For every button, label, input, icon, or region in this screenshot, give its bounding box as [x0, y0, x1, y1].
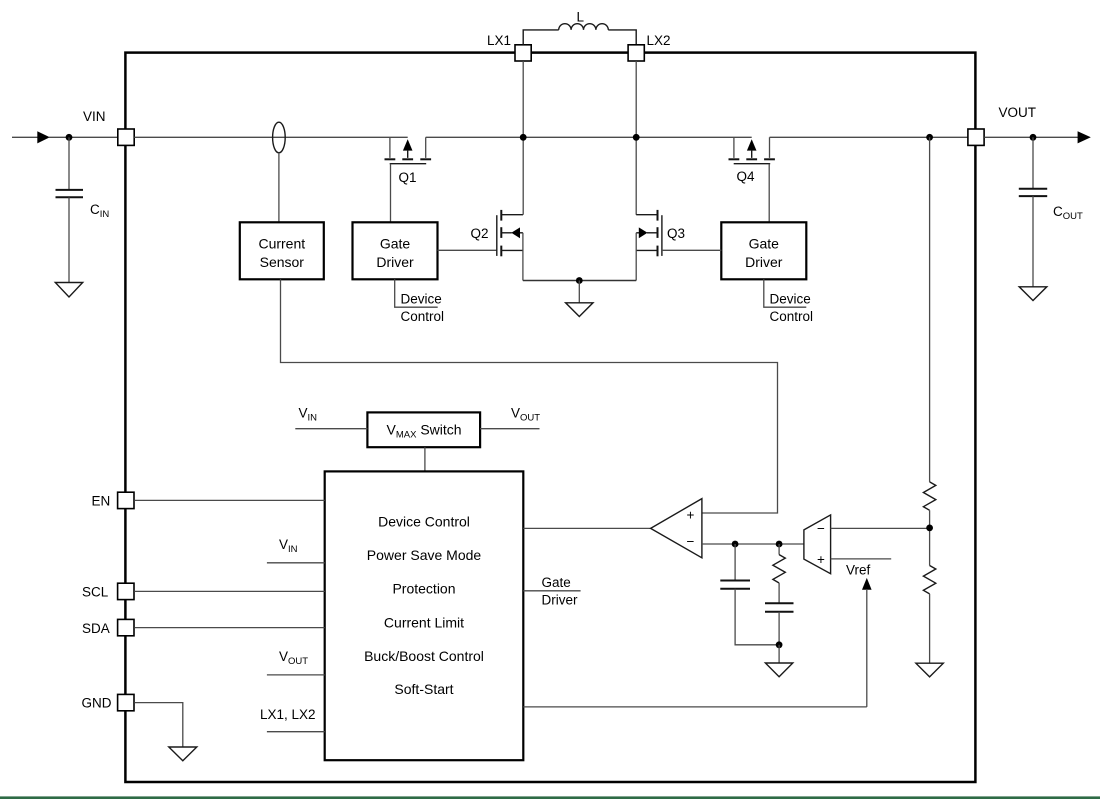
net label VIN at control block — [267, 537, 325, 563]
pin SDA — [82, 619, 134, 635]
svg-text:GND: GND — [82, 696, 112, 711]
ground (compensation) — [765, 645, 792, 677]
current sense element — [273, 122, 286, 153]
error amplifier gm — [804, 515, 831, 574]
node source bus — [576, 277, 583, 284]
wire VIN rail — [134, 136, 752, 138]
wire sensor feed — [278, 153, 280, 223]
wire LX1 net — [522, 61, 524, 215]
svg-text:SDA: SDA — [82, 621, 110, 636]
wire current sensor output to comparator plus input — [281, 279, 778, 513]
IC boundary — [125, 53, 975, 782]
wire Q2 Q3 source bus — [523, 280, 636, 282]
svg-text:Soft-Start: Soft-Start — [394, 681, 453, 697]
resistor divider top — [923, 482, 935, 510]
node compensation left — [732, 541, 739, 548]
svg-text:Vref: Vref — [846, 563, 871, 578]
node feedback tap — [926, 525, 933, 532]
wire VOUT output — [984, 131, 1091, 143]
wire VOUT rail — [770, 136, 968, 138]
wire Q3 gate — [662, 249, 721, 251]
svg-text:Gate: Gate — [542, 575, 571, 590]
transistor Q3 — [636, 210, 685, 281]
svg-text:−: − — [687, 534, 695, 549]
node VIN input junction — [66, 134, 73, 141]
svg-text:VIN: VIN — [83, 109, 106, 124]
ground (power stage) — [566, 281, 593, 317]
svg-text:Device: Device — [401, 292, 442, 307]
wire Q1 gate — [390, 164, 392, 223]
wire SDA — [134, 627, 325, 629]
svg-text:Current: Current — [258, 236, 305, 252]
node compensation right — [776, 541, 783, 548]
wire divider middle — [929, 510, 931, 565]
pin LX2 — [628, 33, 670, 61]
svg-text:Device Control: Device Control — [378, 514, 470, 530]
svg-text:Gate: Gate — [380, 236, 411, 252]
wire Q2 gate — [438, 249, 497, 251]
ground (COUT) — [1019, 287, 1047, 301]
transistor Q4 — [729, 137, 775, 184]
block Current Sensor — [240, 222, 324, 279]
capacitor CIN — [56, 137, 110, 282]
wire LX2 net — [635, 61, 637, 215]
wire SCL — [134, 590, 325, 592]
wire Q4 gate — [768, 164, 770, 223]
block control logic — [325, 471, 524, 760]
ground (CIN) — [55, 283, 82, 298]
capacitor COUT — [1019, 137, 1083, 286]
node compensation ground junction — [776, 641, 783, 648]
net label Device Control right — [764, 279, 813, 324]
net label LX1 LX2 at control block — [260, 707, 325, 732]
wire VMAX to control block — [424, 447, 426, 471]
block Gate Driver left — [353, 222, 438, 279]
node LX2 rail junction — [633, 134, 640, 141]
svg-text:Sensor: Sensor — [260, 254, 305, 270]
pin EN — [92, 492, 135, 508]
svg-text:LX1, LX2: LX1, LX2 — [260, 707, 316, 722]
svg-text:Q4: Q4 — [737, 169, 756, 184]
wire divider feed — [929, 137, 931, 482]
wire comparator output to control block — [523, 527, 650, 529]
svg-text:Current Limit: Current Limit — [384, 615, 464, 631]
svg-text:SCL: SCL — [82, 585, 109, 600]
svg-text:Device: Device — [770, 292, 811, 307]
transistor Q2 — [471, 210, 524, 281]
net label Vref — [846, 563, 872, 707]
net label VOUT at control block — [267, 649, 325, 675]
block VMAX Switch — [367, 412, 480, 447]
wire Vref from control block — [523, 706, 867, 708]
transistor Q1 — [385, 137, 432, 185]
svg-text:Q1: Q1 — [399, 170, 417, 185]
svg-text:+: + — [817, 552, 825, 567]
resistor divider bottom — [923, 566, 935, 594]
capacitor compensation C1 — [720, 544, 779, 645]
svg-text:Protection: Protection — [392, 581, 455, 597]
node LX1 rail junction — [520, 134, 527, 141]
wire VIN input — [12, 136, 39, 138]
ground (GND pin) — [169, 747, 197, 761]
wire error amp plus input — [831, 558, 892, 560]
svg-text:LX1: LX1 — [487, 33, 511, 48]
pin VOUT — [968, 105, 1036, 145]
net label Gate Driver at control block output — [523, 575, 580, 608]
svg-text:Power Save Mode: Power Save Mode — [367, 547, 482, 563]
wire EN — [134, 499, 325, 501]
svg-text:Q3: Q3 — [667, 226, 685, 241]
svg-text:Driver: Driver — [376, 254, 414, 270]
svg-text:+: + — [687, 508, 695, 523]
net label Device Control left — [395, 279, 444, 324]
pin SCL — [82, 583, 134, 599]
node COUT junction — [1030, 134, 1037, 141]
ground (divider) — [916, 663, 943, 677]
svg-text:LX2: LX2 — [647, 33, 671, 48]
svg-text:−: − — [817, 521, 825, 536]
svg-text:Gate: Gate — [749, 236, 780, 252]
comparator U1 — [651, 499, 702, 558]
wire comparator minus input and error amp output — [702, 543, 804, 545]
svg-text:VOUT: VOUT — [999, 105, 1037, 120]
inductor L — [523, 10, 636, 45]
net label VOUT at VMAX output — [480, 406, 540, 429]
net label VIN at VMAX input — [295, 406, 367, 429]
wire error amp minus input — [831, 527, 930, 529]
pin VIN — [83, 109, 134, 145]
wire GND — [134, 703, 183, 747]
svg-text:Control: Control — [770, 309, 814, 324]
svg-text:L: L — [577, 10, 585, 25]
svg-text:Driver: Driver — [542, 593, 579, 608]
pin GND — [82, 694, 135, 710]
block Gate Driver right — [721, 222, 806, 279]
svg-text:Driver: Driver — [745, 254, 783, 270]
capacitor compensation C2 — [765, 583, 794, 645]
resistor compensation R1 — [773, 544, 785, 583]
pin LX1 — [487, 33, 531, 61]
svg-text:EN: EN — [92, 494, 111, 509]
wire divider to ground — [929, 594, 931, 663]
node feedback divider top — [926, 134, 933, 141]
svg-text:Buck/Boost Control: Buck/Boost Control — [364, 648, 484, 664]
svg-text:Q2: Q2 — [471, 226, 489, 241]
svg-text:Control: Control — [401, 309, 445, 324]
